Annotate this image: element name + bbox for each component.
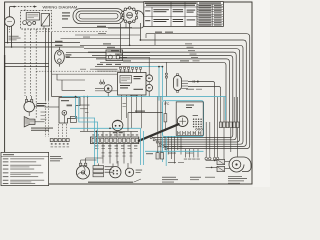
switch DOOR SWITCH box xyxy=(106,50,123,61)
transformer terminals top xyxy=(120,69,122,73)
wires capsule to right xyxy=(182,80,189,82)
board bottom pin row xyxy=(177,131,179,135)
switch HPS (circle above strip) xyxy=(112,120,123,131)
wires below board verticals xyxy=(164,137,166,150)
spec table cell text row1 xyxy=(145,10,150,11)
wire bundle right side (nested runs) xyxy=(80,45,243,144)
motor INDUCED DRAFT BLOWER (bottom-right) xyxy=(229,157,251,172)
switch round limit (left of control box) xyxy=(104,85,112,93)
resistor on board left xyxy=(164,101,166,131)
labels below board xyxy=(158,145,162,148)
wires control box pins down to strip area xyxy=(121,98,123,120)
wires from wrap area down (right-center) xyxy=(184,149,186,158)
wire run B from motor (y40) xyxy=(140,40,246,146)
paper background xyxy=(0,0,270,187)
notes title xyxy=(3,154,14,155)
wire - motor leads down left side xyxy=(7,26,9,42)
capacitor RUN CAP (oval, mid-left) xyxy=(55,50,65,64)
cyan humidifier run xyxy=(145,150,204,152)
sensor FLAME SENSOR (horn shape) xyxy=(24,117,35,127)
spec table column lines xyxy=(151,7,153,26)
wire pair below limit switch xyxy=(95,90,118,92)
cyan verticals to board top xyxy=(158,67,160,101)
wires down to molex connector row xyxy=(220,97,222,122)
cyan wire segment to control area xyxy=(130,66,162,68)
label right of circle C xyxy=(136,169,143,172)
wire from pressure switch xyxy=(28,112,30,116)
wires to inducer xyxy=(206,159,217,161)
wires into neutral stack xyxy=(97,164,99,166)
black wire horizontal above strip xyxy=(80,130,138,132)
transformer winding symbol xyxy=(120,76,132,84)
tiny labels beside verticals xyxy=(123,102,126,105)
wire L2 power xyxy=(5,46,84,48)
terminals at bundle ends xyxy=(159,143,161,145)
connector row (right) xyxy=(219,122,222,128)
wire runs to connector row xyxy=(96,59,229,122)
wire stub run A to bundle xyxy=(154,34,156,46)
labels above terminal strip xyxy=(92,134,94,135)
board buzzer circle xyxy=(177,116,188,127)
wires down to molex pair xyxy=(157,97,159,153)
wire - dashed control run across top-left xyxy=(15,6,37,8)
wires joining circles xyxy=(148,58,150,75)
svg-text:IFC: IFC xyxy=(164,102,170,106)
wire elbow to cyan run start xyxy=(52,96,62,98)
wire motor right loop xyxy=(108,11,144,29)
label on cyan run xyxy=(130,95,138,96)
wires dashed thermostat drops xyxy=(45,100,47,137)
wire elbows above gas valve xyxy=(57,74,85,80)
capacitor capsule HSI (right-middle) xyxy=(174,76,182,91)
terminal strip thermostat sub-base (left) xyxy=(50,139,53,142)
cyan pair center-bottom xyxy=(140,128,142,165)
labels right of neutral stack xyxy=(105,165,114,168)
board bottom pin squares xyxy=(178,132,179,133)
label on L1 wire xyxy=(55,41,63,42)
wire dashed mid horizontals xyxy=(36,31,108,33)
note text under flame sensor xyxy=(31,127,53,130)
labels on drop wires xyxy=(102,151,105,154)
wire pair with labels y66-69 xyxy=(95,66,130,68)
wires into motor B xyxy=(112,164,114,167)
wire below harness xyxy=(62,27,132,29)
label on wire to board xyxy=(135,111,145,112)
motor OFM (top-left circle) xyxy=(5,17,15,27)
wires into bottom motor xyxy=(80,160,82,163)
cyan wire route 1 (valve to strip area) xyxy=(76,97,95,166)
junction NEUTRAL block stack xyxy=(93,166,104,169)
wire L1 power xyxy=(5,42,80,44)
relay box (dashed enclosure) top-left xyxy=(21,11,52,29)
control board IFC cyan outline xyxy=(163,101,204,137)
labels under HPS xyxy=(113,132,117,133)
junction dots above cyan drops xyxy=(158,66,160,68)
label LOCATED text left of motor xyxy=(50,155,61,158)
board pin circles below xyxy=(196,128,198,130)
wire bundle mid-left verticals xyxy=(45,28,47,100)
spec table cell text row2 xyxy=(145,20,150,21)
wire pair going right with corners xyxy=(188,82,215,89)
cyan wire horizontal into strip area xyxy=(70,127,141,129)
legend sub-table rows xyxy=(199,2,221,3)
connector circles at vertical ends xyxy=(205,157,208,160)
wire limit switch lead xyxy=(95,88,104,90)
board pin grid xyxy=(193,118,194,119)
wire - motor to top dashed run xyxy=(9,7,11,17)
label capacitor xyxy=(65,54,71,55)
wire ground pair lower-left xyxy=(5,63,49,65)
border emphasis left segment xyxy=(4,55,6,100)
notes rows xyxy=(3,157,9,160)
label on run A xyxy=(155,32,162,33)
labels under left terminals xyxy=(51,143,53,144)
junction dot on wire pair xyxy=(197,81,199,83)
wire black horizontal to board left xyxy=(128,112,163,114)
wire harness loop inner xyxy=(79,13,118,19)
wire heavy field connection (diagonal) xyxy=(139,124,179,141)
labels below terminal strip xyxy=(95,145,98,146)
wires strip up to control box xyxy=(96,131,98,137)
wire flame sensor lead xyxy=(35,121,45,123)
wires - dashed drops from relay box xyxy=(24,29,26,96)
wires below connector row xyxy=(223,128,225,160)
label inducer xyxy=(228,175,242,178)
wire capacitor bottom lead xyxy=(58,64,60,67)
wires door switch to right xyxy=(123,52,150,54)
spec table header band xyxy=(144,6,224,8)
labels under wire pair xyxy=(186,88,194,91)
spec table row line xyxy=(144,16,197,18)
label BK dark on wire xyxy=(180,60,189,61)
labels 24V right of valve xyxy=(80,104,90,107)
board small labels xyxy=(186,104,194,107)
wire harness loop outer xyxy=(73,9,124,24)
wires gas valve xyxy=(63,115,65,123)
caption twinning connector xyxy=(228,177,247,180)
notes legend box (bottom-left) xyxy=(1,152,49,185)
small labels left of valve xyxy=(41,111,47,114)
tiny labels above wires xyxy=(97,63,103,66)
wire motor drop to bundle xyxy=(129,23,131,46)
board grid label xyxy=(193,114,198,117)
capacitor block in relay box xyxy=(41,14,49,26)
label pressure switch xyxy=(37,102,47,105)
relay coil xyxy=(26,13,39,20)
caption flame sensor / ignitor xyxy=(190,176,201,179)
motor BLOWER (bottom, large circle) xyxy=(76,166,89,179)
motor terminals top xyxy=(79,163,81,165)
transformer control box xyxy=(118,73,147,96)
wire capacitor top lead xyxy=(58,47,60,50)
relay contact contacts (circles) xyxy=(23,21,27,25)
valve body terminals dark xyxy=(67,105,73,107)
terminal strip main (center bottom) xyxy=(91,137,139,144)
sensor circle small (bottom-center-right) xyxy=(125,168,133,176)
connector squares on vertical wire xyxy=(165,73,167,75)
black vertical beside cyans xyxy=(165,62,167,97)
capacitor blocks left of inducer xyxy=(217,159,225,164)
switch (lower circle) right of control box xyxy=(146,84,153,91)
cyan wire route 2 xyxy=(79,97,98,163)
switch PRESSURE SWITCH (circle, left) xyxy=(24,101,35,112)
motor circle with dots (bottom-center) xyxy=(110,167,121,178)
molex connector pair xyxy=(156,153,159,159)
label on wire below harness xyxy=(97,26,106,27)
connector ticks before dot xyxy=(192,80,194,83)
label 208/230V power supply xyxy=(9,35,19,38)
junction dot top-left xyxy=(13,6,15,8)
label on L2 wire xyxy=(55,45,63,46)
control box bottom pins xyxy=(121,95,123,98)
junction dots left rail xyxy=(7,42,9,44)
labels inside control box xyxy=(134,76,143,77)
junction dots xyxy=(129,44,131,46)
junction dots on cyan run xyxy=(83,96,85,98)
wires strip down to motors xyxy=(102,144,104,164)
wire harness loop middle xyxy=(76,11,121,21)
caption LOCATED IN BURNER COMPARTMENT xyxy=(88,182,133,183)
board inner black edge xyxy=(176,102,203,135)
gas valve GV cluster xyxy=(59,98,80,124)
motor BLOWER MOTOR (top-center) xyxy=(122,8,137,23)
wire horizontals upper-center xyxy=(75,34,140,36)
terminal circles above limit xyxy=(100,82,102,84)
wire run A from table area (y33.7) xyxy=(146,34,250,149)
caption thermostat wiring (bottom right of strip) xyxy=(162,176,176,179)
diagram border frame xyxy=(5,2,252,184)
black verticals left of strip xyxy=(83,97,85,132)
svg-text:WIRING DIAGRAM: WIRING DIAGRAM xyxy=(43,5,78,10)
spec table frame xyxy=(144,2,224,27)
labels on harness left xyxy=(62,12,70,13)
wire verticals right-center down xyxy=(214,89,216,157)
labels on bundle wires xyxy=(103,43,111,44)
cyan verticals below board xyxy=(161,137,163,162)
switch (upper circle) right of control box xyxy=(146,75,153,82)
wire cyan top run xyxy=(62,96,226,98)
